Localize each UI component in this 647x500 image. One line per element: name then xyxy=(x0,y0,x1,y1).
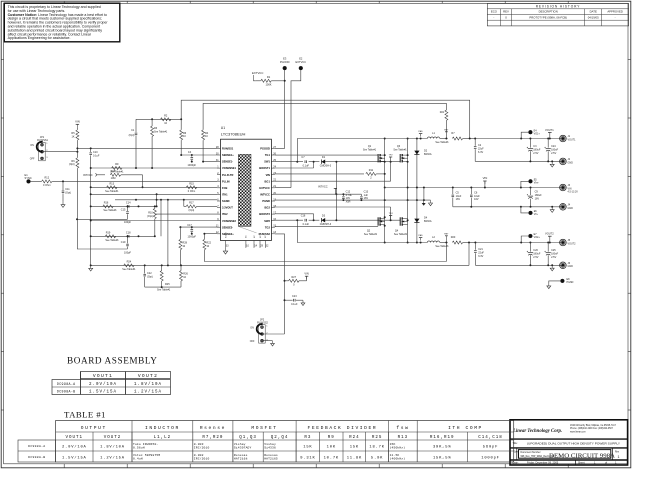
svg-text:fsw: fsw xyxy=(396,425,409,431)
capacitor C19 100pF xyxy=(127,236,129,243)
ground at U1 SGND pin 33 xyxy=(225,248,227,251)
test point E5 VIN xyxy=(529,179,533,183)
svg-text:R18: R18 xyxy=(111,170,116,173)
test point E6 VIN- xyxy=(529,211,533,215)
svg-text:BG2: BG2 xyxy=(265,206,271,210)
svg-text:See Table#1: See Table#1 xyxy=(122,268,136,271)
svg-text:0 Ohm: 0 Ohm xyxy=(43,184,51,187)
svg-text:SENSE2+: SENSE2+ xyxy=(222,232,234,236)
svg-text:R3: R3 xyxy=(304,436,311,440)
wire SW1 rail xyxy=(297,138,427,140)
svg-text:R25: R25 xyxy=(165,283,170,286)
svg-text:3.3VOUT: 3.3VOUT xyxy=(222,206,233,210)
wire C15 to left rail xyxy=(77,218,128,220)
svg-text:R19: R19 xyxy=(106,232,111,235)
svg-text:VOUT1: VOUT1 xyxy=(93,373,113,379)
svg-text:0 Ohm: 0 Ohm xyxy=(188,190,196,193)
wire ITH2 comp row xyxy=(91,235,155,237)
svg-text:HAT2165: HAT2165 xyxy=(264,458,278,461)
svg-text:TG1: TG1 xyxy=(265,153,271,157)
capacitor C6 10uF 16V xyxy=(470,188,472,195)
svg-text:BOARD ASSEMBLY: BOARD ASSEMBLY xyxy=(67,356,157,366)
wire output rail VOUT2 xyxy=(475,242,563,244)
svg-text:VIN: VIN xyxy=(304,271,308,275)
svg-text:16V: 16V xyxy=(456,198,461,201)
test point E7 VOUT2 xyxy=(529,234,533,238)
wire SGND row xyxy=(115,199,217,201)
svg-text:SW1: SW1 xyxy=(264,160,270,164)
svg-text:EXTVCC: EXTVCC xyxy=(296,60,307,64)
svg-text:FCB: FCB xyxy=(222,186,227,190)
ground PGND open arrow xyxy=(430,200,432,203)
svg-text:PLLIN: PLLIN xyxy=(222,179,230,183)
svg-text:LTC3708EUH: LTC3708EUH xyxy=(221,132,246,137)
svg-text:11.5K: 11.5K xyxy=(390,454,400,457)
svg-text:R7,R20: R7,R20 xyxy=(202,436,223,440)
svg-text:EXTVCC: EXTVCC xyxy=(259,186,270,190)
svg-text:0.1uF: 0.1uF xyxy=(93,154,100,157)
resistor R2 10 xyxy=(161,118,171,121)
wire SENSE1+ top route xyxy=(180,144,182,156)
svg-text:5.9K: 5.9K xyxy=(371,456,383,460)
ground below C11 xyxy=(62,202,64,205)
svg-text:2.5V: 2.5V xyxy=(551,152,556,155)
wire SW2 vertical to SW2 rail xyxy=(296,220,298,242)
capacitor C23 0.1uF xyxy=(285,299,293,301)
svg-text:OUTPUT: OUTPUT xyxy=(81,425,107,431)
svg-text:DC998A-B: DC998A-B xyxy=(57,390,76,394)
svg-text:www.linear.com: www.linear.com xyxy=(570,431,586,434)
wire divider bottom xyxy=(145,286,181,288)
svg-text:0.1uF: 0.1uF xyxy=(303,164,310,167)
wire VIN filter row with R11 xyxy=(275,173,364,175)
svg-text:INTVCC: INTVCC xyxy=(83,173,93,177)
svg-text:1.8V/10A: 1.8V/10A xyxy=(134,382,162,387)
connector J3 VIN xyxy=(560,184,567,191)
svg-text:Vitec 59P9875M: Vitec 59P9875M xyxy=(133,453,160,457)
wire Q4 vertical to PGND row xyxy=(407,200,409,242)
svg-text:VIN: VIN xyxy=(483,176,488,180)
svg-text:of: of xyxy=(605,462,607,465)
svg-text:Phone: (408)432-1900 Fax: (408: Phone: (408)432-1900 Fax: (408)434-0507 xyxy=(570,428,614,430)
pad flag ch2 sense xyxy=(445,235,448,237)
svg-text:VOUT1: VOUT1 xyxy=(568,138,577,141)
svg-text:0.4uH: 0.4uH xyxy=(133,458,143,461)
svg-text:Renesas: Renesas xyxy=(264,454,278,457)
svg-text:ON: ON xyxy=(250,327,254,330)
svg-text:SGND: SGND xyxy=(225,232,227,238)
svg-text:(UPGRADED) DUAL OUTPUT HIGH DE: (UPGRADED) DUAL OUTPUT HIGH DENSITY POWE… xyxy=(527,441,620,445)
svg-text:R24: R24 xyxy=(349,436,360,440)
wire VOUT1 gnd rail xyxy=(475,160,563,162)
resistor R16 See Table#1 xyxy=(103,205,113,208)
svg-text:See Table#1: See Table#1 xyxy=(105,190,119,193)
svg-text:1.2V/15A: 1.2V/15A xyxy=(134,390,162,395)
svg-text:10.7K: 10.7K xyxy=(324,456,339,460)
wire SW1 row xyxy=(275,161,303,163)
svg-text:1.5V/15A: 1.5V/15A xyxy=(62,455,87,460)
diode D3 CMDSH-3 xyxy=(317,219,319,221)
wire L2 to R20 xyxy=(440,242,448,244)
ground at JP2 pin3 xyxy=(263,340,272,342)
svg-text:See Table#1: See Table#1 xyxy=(154,131,168,134)
connector J1 VOUT1 xyxy=(560,135,567,142)
resistor R9 See Table#1 xyxy=(112,167,122,170)
svg-text:R24: R24 xyxy=(127,261,132,264)
resistor R10 (Opt) xyxy=(154,206,156,208)
svg-text:(Opt): (Opt) xyxy=(147,215,153,218)
svg-text:Vishay: Vishay xyxy=(264,442,276,446)
svg-text:6.3V: 6.3V xyxy=(478,255,483,258)
notice text box xyxy=(4,3,120,42)
test point E4 VOUT1 xyxy=(529,130,533,134)
svg-text:See Table#1: See Table#1 xyxy=(394,233,408,236)
svg-text:VOUT2: VOUT2 xyxy=(104,436,122,440)
capacitor C2 22uF 6.3V xyxy=(474,139,476,146)
svg-text:2.0V/10A: 2.0V/10A xyxy=(62,444,87,449)
svg-text:ITH2: ITH2 xyxy=(222,212,228,216)
pad flag ch1 sense xyxy=(445,131,448,133)
svg-text:R20: R20 xyxy=(451,236,456,239)
svg-text:C14,C18: C14,C18 xyxy=(478,436,503,440)
svg-text:R16,R19: R16,R19 xyxy=(430,436,455,440)
svg-text:SW2: SW2 xyxy=(264,219,270,223)
svg-text:Title:: Title: xyxy=(513,442,518,445)
svg-text:R8T: R8T xyxy=(444,233,449,235)
wire FCB row xyxy=(91,186,217,188)
capacitor C22 (Opt) xyxy=(144,265,146,273)
resistor R12 0 Ohm xyxy=(30,180,41,182)
revision history table xyxy=(487,3,628,26)
svg-text:C14: C14 xyxy=(126,202,131,205)
svg-text:REVISION HISTORY: REVISION HISTORY xyxy=(536,4,581,8)
connector J6 GND xyxy=(560,262,567,269)
svg-text:PAD: PAD xyxy=(418,234,423,237)
svg-text:1000pF: 1000pF xyxy=(188,164,197,167)
svg-text:100pF: 100pF xyxy=(124,252,132,255)
svg-text:INTVCC: INTVCC xyxy=(318,184,328,188)
svg-text:15K: 15K xyxy=(350,445,359,449)
diode D1 CMDSH-3 xyxy=(317,161,319,163)
diode D2 B230A xyxy=(416,139,418,201)
wire RUN/SS2 to JP2 xyxy=(275,234,285,334)
capacitor C4 1000pF across sense1 xyxy=(191,155,193,157)
svg-text:VOUT2: VOUT2 xyxy=(568,242,577,245)
ground at VOUT2 gnd rail xyxy=(551,265,553,268)
svg-text:0.1uF: 0.1uF xyxy=(291,303,298,306)
svg-text:VOSENSE1: VOSENSE1 xyxy=(222,166,237,170)
svg-text:ECO: ECO xyxy=(491,10,498,14)
diode D4 B230A xyxy=(416,200,418,242)
resistor R27 0 Ohm pullup xyxy=(285,280,289,282)
svg-text:MOSFET: MOSFET xyxy=(251,425,277,431)
svg-text:See Table#1: See Table#1 xyxy=(103,209,117,212)
svg-text:OFF: OFF xyxy=(250,340,255,343)
svg-text:HAT2168: HAT2168 xyxy=(234,458,248,461)
capacitor C14 series xyxy=(126,205,128,208)
svg-text:0.56uH: 0.56uH xyxy=(133,447,145,450)
transistor Q2 See Table#1 xyxy=(377,217,379,225)
svg-text:CMDSH-3: CMDSH-3 xyxy=(320,223,332,226)
capacitor C24 180uF 2.5V xyxy=(547,139,549,148)
svg-text:R8T: R8T xyxy=(444,129,449,131)
wire output rail VOUT1 xyxy=(475,138,563,140)
svg-text:18.7K: 18.7K xyxy=(369,445,384,449)
capacitor C12 4.7uF 10V X5R xyxy=(342,194,344,196)
wire TG2 row to Q2 gate xyxy=(275,226,378,228)
test point TP4 tick xyxy=(390,216,392,221)
svg-text:INTVCC: INTVCC xyxy=(260,193,270,197)
svg-text:See Table#1: See Table#1 xyxy=(435,141,449,144)
ground at sense2 row left end xyxy=(90,265,92,268)
capacitor C16 0.1uF boost2 xyxy=(304,219,306,222)
svg-text:VIn-: VIn- xyxy=(534,213,539,216)
svg-text:ON: ON xyxy=(30,144,34,147)
svg-text:R13: R13 xyxy=(110,183,115,186)
wire ch2 sense verticals xyxy=(445,243,447,262)
wire E3 to PGOOD pin xyxy=(284,70,286,148)
svg-text:BG1: BG1 xyxy=(265,179,271,183)
resistor R25 See Table#1 xyxy=(161,265,163,270)
resistor R20 sense See Table#1 xyxy=(452,241,462,244)
capacitor C1 (Opt) xyxy=(135,119,137,132)
svg-text:VOUT2: VOUT2 xyxy=(138,373,158,379)
svg-text:16V: 16V xyxy=(364,197,369,200)
svg-text:(400kHz): (400kHz) xyxy=(390,457,406,461)
svg-text:-: - xyxy=(615,15,616,19)
pad flag PAD ch2 xyxy=(419,237,422,239)
svg-text:15K,5%: 15K,5% xyxy=(433,456,451,460)
wire vertical VIN to PGND short xyxy=(423,188,425,201)
svg-text:R21: R21 xyxy=(440,111,445,114)
test point TP2 tick xyxy=(390,157,392,162)
wire JP2 pin2 xyxy=(263,333,284,335)
svg-text:Rsense: Rsense xyxy=(200,425,226,431)
svg-text:ITH1: ITH1 xyxy=(222,193,228,197)
svg-text:04/19/05: 04/19/05 xyxy=(588,15,599,19)
svg-text:DESCRIPTION: DESCRIPTION xyxy=(539,10,558,14)
svg-text:See Table#1: See Table#1 xyxy=(393,148,407,151)
capacitor C9 180uF 16V xyxy=(530,188,532,196)
svg-text:1: 1 xyxy=(618,455,620,459)
svg-text:2.0V/10A: 2.0V/10A xyxy=(89,382,117,387)
wire ITH1 pin row xyxy=(91,193,217,195)
wire sense2- lower route xyxy=(204,261,446,263)
svg-text:Vishay: Vishay xyxy=(234,442,246,446)
svg-text:PROTOTYPE (998A, 06-FCB): PROTOTYPE (998A, 06-FCB) xyxy=(529,15,567,19)
svg-text:1000pF: 1000pF xyxy=(188,236,197,239)
svg-text:Q2,Q4: Q2,Q4 xyxy=(271,436,289,440)
capacitor C15 100pF xyxy=(127,206,129,211)
wire R18 to row B xyxy=(142,175,144,188)
svg-text:TABLE #1: TABLE #1 xyxy=(64,410,106,420)
svg-text:Toko FDUD650-: Toko FDUD650- xyxy=(133,442,158,446)
svg-text:BOOST1: BOOST1 xyxy=(259,166,270,170)
svg-text:R27: R27 xyxy=(292,276,297,279)
svg-text:REV: REV xyxy=(503,10,509,14)
svg-text:B230A: B230A xyxy=(424,153,432,156)
wire sense2+ lower route xyxy=(91,264,469,266)
wire long verticals x=161 x=167.9 xyxy=(160,200,162,237)
svg-text:Linear Technology Corp.: Linear Technology Corp. xyxy=(512,429,562,434)
svg-text:0.1uF: 0.1uF xyxy=(303,223,310,226)
svg-text:VIn+: VIn+ xyxy=(534,182,540,185)
wire SW2 row continues to Q4 gate xyxy=(336,219,400,221)
svg-text:4.5-13.2V: 4.5-13.2V xyxy=(568,191,579,194)
resistor R4 10 sense filter xyxy=(202,130,205,140)
svg-text:BOOST2: BOOST2 xyxy=(259,212,270,216)
svg-text:R9: R9 xyxy=(328,436,335,440)
svg-text:SYNC: SYNC xyxy=(25,176,32,180)
capacitor C20 180uF 2.5V xyxy=(529,243,531,252)
wire VIN gnd rail xyxy=(453,206,563,208)
wire L1 to R7 xyxy=(440,138,448,140)
svg-text:-: - xyxy=(493,15,494,19)
wire D3 anode up to INTVCC row xyxy=(335,194,337,220)
svg-text:PAD: PAD xyxy=(418,130,423,133)
pad flag PAD ch1 xyxy=(419,133,422,135)
svg-text:OFF: OFF xyxy=(30,158,35,161)
svg-text:EXTVCC: EXTVCC xyxy=(252,71,263,75)
resistor R17 (Opt) at 3.3VOUT xyxy=(183,200,185,207)
wire ITH2 pin row xyxy=(155,213,217,215)
svg-text:1.2V/15A: 1.2V/15A xyxy=(100,455,125,460)
svg-text:Size: Size xyxy=(514,452,519,454)
resistor R1 100K xyxy=(256,80,261,82)
svg-text:R13: R13 xyxy=(398,436,409,440)
svg-text:2.5V: 2.5V xyxy=(533,256,538,259)
svg-text:R25: R25 xyxy=(372,436,383,440)
svg-text:(450kHz): (450kHz) xyxy=(390,446,406,450)
svg-text:IRC/2010: IRC/2010 xyxy=(194,457,210,461)
svg-text:L1,L2: L1,L2 xyxy=(154,436,172,440)
svg-text:R15: R15 xyxy=(189,183,194,186)
capacitor C7 0.1uF boost xyxy=(304,160,306,163)
svg-text:10M: 10M xyxy=(111,177,116,180)
connector J4 GND xyxy=(560,204,567,211)
svg-text:R11: R11 xyxy=(369,169,374,172)
wire INTVCC row xyxy=(275,193,362,195)
svg-text:6.3V: 6.3V xyxy=(478,151,483,154)
capacitor C5 10uF 16V xyxy=(452,188,454,195)
svg-text:R16: R16 xyxy=(104,202,109,205)
wire SENSE1+ pin to filter xyxy=(181,154,217,156)
svg-text:VOUT1: VOUT1 xyxy=(545,128,554,132)
capacitor C25 180uF 2.5V xyxy=(547,243,549,252)
svg-text:See Table#1: See Table#1 xyxy=(435,245,449,248)
title block xyxy=(510,420,628,465)
svg-text:0.002: 0.002 xyxy=(194,454,204,457)
svg-text:X5R: X5R xyxy=(346,201,351,204)
wire SENSE1- pin to filter xyxy=(203,161,217,163)
svg-text:C16: C16 xyxy=(301,215,306,218)
svg-text:1630 McCarthy Blvd, Milpitas,: 1630 McCarthy Blvd, Milpitas, Ca 95035-7… xyxy=(570,424,617,427)
wire VOUT2 gnd rail xyxy=(475,264,563,266)
svg-text:DC998A-A: DC998A-A xyxy=(28,444,45,448)
svg-text:9.31K: 9.31K xyxy=(300,456,315,460)
svg-text:Si4397ADY: Si4397ADY xyxy=(234,446,252,450)
svg-text:1.8V/10A: 1.8V/10A xyxy=(100,444,125,449)
test point E2 EXTVCC xyxy=(299,66,303,70)
resistor R13 See Table#1 xyxy=(107,186,117,189)
svg-text:See Table#1: See Table#1 xyxy=(364,233,378,236)
svg-text:DC998A-A: DC998A-A xyxy=(57,382,76,386)
svg-text:SENSE1-: SENSE1- xyxy=(222,160,233,164)
svg-text:PGND: PGND xyxy=(262,199,270,203)
svg-text:(Opt): (Opt) xyxy=(189,209,195,212)
capacitor C13 1uF 16V xyxy=(360,194,362,196)
svg-text:(Opt): (Opt) xyxy=(129,134,135,137)
svg-text:APPROVED: APPROVED xyxy=(607,10,623,14)
svg-text:SENSE1+: SENSE1+ xyxy=(222,153,234,157)
ground at VOUT1 gnd rail xyxy=(551,161,553,164)
wire BG1 row to gate via vertical xyxy=(275,180,391,182)
wire VIN rail xyxy=(385,187,563,189)
wire BG2 row to gate via vertical xyxy=(275,206,391,208)
svg-text:DEMO CIRCUIT 998A: DEMO CIRCUIT 998A xyxy=(549,454,616,460)
svg-text:RUN/SS1: RUN/SS1 xyxy=(222,147,234,151)
svg-text:VOUT2: VOUT2 xyxy=(545,232,554,236)
svg-text:16V: 16V xyxy=(535,197,540,200)
svg-text:1K: 1K xyxy=(72,135,75,138)
svg-text:(Opt): (Opt) xyxy=(69,163,75,166)
svg-text:(Opt): (Opt) xyxy=(147,275,153,278)
connector J2 GND xyxy=(560,158,567,165)
capacitor C21 22uF 6.3V xyxy=(474,243,476,250)
resistor R6 10 sense filter xyxy=(180,130,183,140)
svg-text:See Table#1: See Table#1 xyxy=(363,148,377,151)
svg-text:VIN: VIN xyxy=(75,120,80,124)
wire SW2 rail xyxy=(297,242,427,244)
svg-text:See Table#1: See Table#1 xyxy=(157,289,171,292)
svg-text:GND: GND xyxy=(568,265,574,268)
wire SW1 vertical to SW rail xyxy=(296,139,298,162)
svg-text:10K: 10K xyxy=(327,445,336,449)
svg-text:100K: 100K xyxy=(265,82,271,86)
svg-text:560pF: 560pF xyxy=(483,445,498,449)
svg-text:2.5V: 2.5V xyxy=(551,256,556,259)
inductor L2 See Table#1 xyxy=(427,241,439,243)
svg-text:INDUCTOR: INDUCTOR xyxy=(145,425,180,431)
wire JP1 pin2 jog to RUN/SS1 pin 28 xyxy=(43,151,77,153)
wire BOOST2 to boost cap node xyxy=(275,213,314,215)
resistor R5 1K xyxy=(76,127,78,130)
wire E2 to EXTVCC pin 21 xyxy=(291,70,301,188)
capacitor C10 0.1uF soft start xyxy=(90,148,92,152)
svg-text:PLLFLTR: PLLFLTR xyxy=(222,173,233,177)
capacitor C17 1000pF across sense2 xyxy=(191,227,193,229)
ground at VIN gnd rail xyxy=(551,207,553,210)
svg-text:SENSE2-: SENSE2- xyxy=(222,225,233,229)
wire SW1 row continues to Q3 gate xyxy=(336,161,400,163)
svg-text:R12: R12 xyxy=(45,177,50,180)
wire BOOST1 to boost cap node xyxy=(275,167,314,169)
test point E8 PGND xyxy=(561,279,565,283)
wire SENSE1- top route xyxy=(202,144,204,162)
svg-text:PGOOD: PGOOD xyxy=(280,60,290,64)
wire Q2 vertical to VIN row xyxy=(384,188,386,243)
svg-text:16V: 16V xyxy=(474,198,479,201)
wire VOSENSE1 upper branch xyxy=(136,118,181,120)
capacitor C3 180uF 2.5V xyxy=(529,139,531,148)
svg-text:ITH COMP: ITH COMP xyxy=(448,425,483,431)
svg-text:R1: R1 xyxy=(267,75,271,79)
svg-text:VIN: VIN xyxy=(266,173,270,177)
wire VOSENSE2 row xyxy=(91,220,217,222)
resistor R11 2 xyxy=(366,172,376,175)
svg-text:1000pF: 1000pF xyxy=(481,456,499,460)
svg-text:VO2+: VO2+ xyxy=(534,236,541,239)
